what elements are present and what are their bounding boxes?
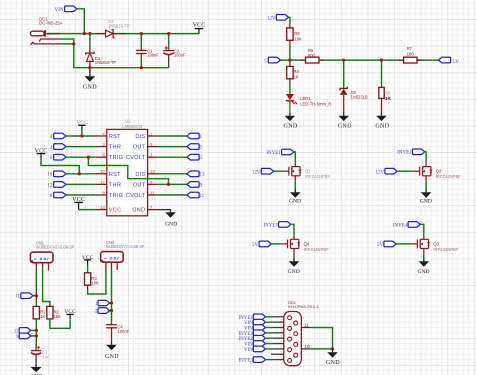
svg-text:RST: RST (109, 134, 121, 140)
svg-text:GND: GND (132, 208, 145, 214)
svg-text:KH-DR9S-F8.1-1: KH-DR9S-F8.1-1 (288, 304, 319, 309)
svg-text:INYE2: INYE2 (238, 337, 253, 342)
svg-text:1N5819-TP: 1N5819-TP (108, 23, 130, 28)
svg-text:100: 100 (407, 51, 415, 56)
svg-text:VCC: VCC (193, 22, 206, 28)
svg-text:GND: GND (417, 269, 429, 275)
svg-text:12V: 12V (252, 171, 261, 176)
svg-text:12V: 12V (375, 171, 384, 176)
svg-text:10K: 10K (91, 281, 99, 286)
svg-text:GND: GND (165, 221, 177, 227)
svg-text:5V: 5V (453, 60, 460, 65)
svg-text:3: 3 (280, 335, 282, 339)
svg-text:GND: GND (284, 123, 298, 129)
svg-text:CVOLT: CVOLT (126, 193, 146, 199)
svg-text:GND: GND (338, 123, 352, 129)
svg-text:OUT: OUT (133, 182, 146, 188)
svg-text:GND: GND (105, 354, 119, 360)
svg-text:500: 500 (308, 53, 316, 58)
svg-text:1K: 1K (385, 96, 392, 102)
svg-text:INYE3: INYE3 (238, 359, 253, 364)
svg-text:2: 2 (280, 324, 282, 328)
svg-text:INYE2: INYE2 (397, 151, 412, 156)
svg-text:4: 4 (280, 345, 282, 349)
svg-text:OUT: OUT (133, 145, 146, 151)
svg-text:Q1: Q1 (305, 169, 311, 174)
svg-text:RST: RST (109, 172, 121, 178)
svg-text:12V: 12V (267, 16, 276, 21)
svg-text:VIN: VIN (244, 348, 253, 353)
svg-text:1K: 1K (294, 74, 299, 79)
svg-text:3: 3 (52, 43, 54, 47)
svg-text:1N5231B: 1N5231B (351, 94, 368, 99)
svg-text:IRFZ44NPBF: IRFZ44NPBF (436, 174, 462, 179)
svg-text:2: 2 (52, 38, 54, 42)
svg-text:TRIG: TRIG (109, 193, 123, 199)
svg-text:TRIG: TRIG (109, 155, 123, 161)
svg-text:10: 10 (48, 173, 53, 178)
svg-text:Q2: Q2 (436, 169, 442, 174)
svg-text:VCC: VCC (109, 208, 122, 214)
svg-text:DIS: DIS (135, 134, 145, 140)
svg-text:6: 6 (280, 318, 282, 322)
svg-text:LM556CN: LM556CN (122, 124, 142, 129)
svg-text:9: 9 (280, 351, 282, 355)
svg-text:INYE4: INYE4 (393, 223, 408, 228)
svg-text:Q4: Q4 (304, 241, 310, 246)
svg-text:13: 13 (150, 169, 155, 174)
svg-text:IRFZ44NPBF: IRFZ44NPBF (305, 174, 331, 179)
svg-text:13: 13 (200, 173, 205, 178)
svg-text:10: 10 (100, 169, 105, 174)
svg-text:11: 11 (150, 190, 155, 195)
svg-text:VIN: VIN (244, 321, 253, 326)
svg-text:11: 11 (15, 295, 20, 300)
svg-text:1: 1 (280, 313, 282, 317)
svg-text:100uF: 100uF (174, 53, 186, 58)
svg-text:WJ0EDGVC-5.08-3P: WJ0EDGVC-5.08-3P (36, 245, 75, 250)
svg-text:1: 1 (52, 32, 54, 36)
svg-text:DC-005-25A: DC-005-25A (39, 20, 62, 25)
svg-text:WJ0EDGVC-5.08-3P: WJ0EDGVC-5.08-3P (106, 244, 145, 249)
svg-text:8: 8 (280, 340, 282, 344)
svg-text:14: 14 (100, 205, 105, 210)
svg-text:11: 11 (304, 322, 309, 328)
svg-text:GND: GND (83, 85, 97, 91)
svg-text:1N5819-TP: 1N5819-TP (95, 60, 117, 65)
svg-text:R6: R6 (294, 31, 300, 36)
svg-text:GND: GND (289, 199, 301, 205)
svg-text:CVOLT: CVOLT (126, 155, 146, 161)
svg-text:11: 11 (200, 194, 205, 199)
svg-text:LED-TH-5mm_R: LED-TH-5mm_R (300, 101, 331, 106)
svg-text:GND: GND (420, 199, 432, 205)
svg-text:GND: GND (375, 123, 389, 129)
svg-text:100nF: 100nF (147, 53, 159, 58)
svg-text:IRFZ44NPBF: IRFZ44NPBF (433, 247, 459, 252)
svg-text:1uF: 1uF (42, 354, 50, 359)
svg-text:VIN: VIN (55, 8, 64, 13)
svg-text:5V: 5V (252, 243, 259, 248)
svg-text:INYE1: INYE1 (238, 316, 253, 321)
svg-text:INYE1: INYE1 (266, 151, 281, 156)
svg-text:VIN: VIN (244, 343, 253, 348)
svg-text:15K: 15K (54, 314, 62, 319)
svg-text:10K: 10K (294, 37, 302, 42)
svg-text:GND: GND (288, 269, 300, 275)
svg-text:1K: 1K (40, 314, 45, 319)
svg-text:12: 12 (100, 180, 105, 185)
svg-text:THR: THR (109, 145, 121, 151)
svg-text:VIN: VIN (244, 327, 253, 332)
svg-text:THR: THR (109, 182, 121, 188)
svg-text:DIS: DIS (135, 172, 145, 178)
svg-text:Q3: Q3 (433, 241, 439, 246)
svg-text:INYE4: INYE4 (238, 332, 253, 337)
svg-text:10: 10 (304, 344, 310, 350)
svg-text:IRFZ44NPBF: IRFZ44NPBF (304, 247, 330, 252)
svg-text:100nF: 100nF (117, 329, 129, 334)
svg-text:12: 12 (48, 183, 53, 188)
svg-text:12: 12 (14, 329, 19, 334)
svg-text:7: 7 (280, 329, 282, 333)
svg-text:5V: 5V (377, 243, 384, 248)
svg-text:INYE3: INYE3 (263, 223, 278, 228)
svg-text:R8: R8 (385, 91, 391, 96)
svg-text:GND: GND (326, 360, 340, 366)
svg-text:5: 5 (280, 356, 282, 360)
